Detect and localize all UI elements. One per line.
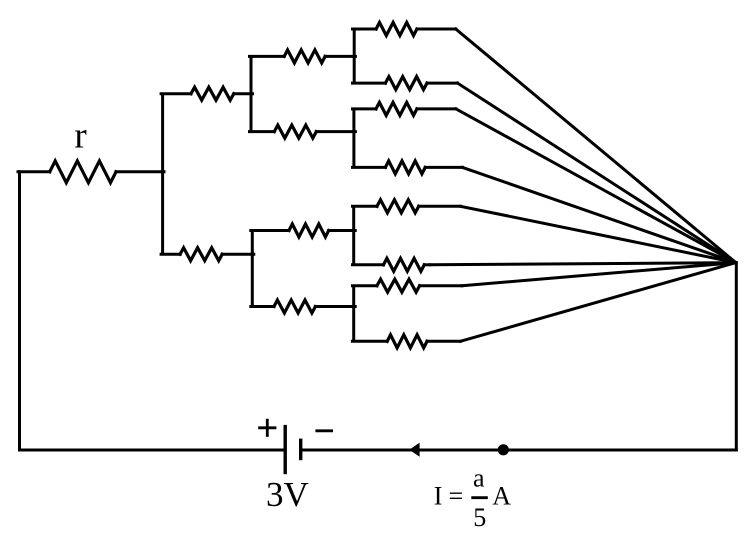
wire resistor R13 to kink [420, 284, 462, 287]
svg-text:a: a [473, 464, 485, 493]
resistor R7 [376, 23, 417, 36]
wire node G to resistor R14 [353, 340, 388, 343]
node E vertical bus [352, 109, 355, 167]
svg-text:3V: 3V [266, 475, 309, 514]
svg-text:I: I [434, 482, 443, 511]
resistor R1 [191, 87, 234, 100]
wire bottom left (battery + side) [20, 449, 286, 452]
wire resistor R2 to node C [222, 253, 254, 256]
wire node B to resistor R4 [250, 130, 275, 133]
resistor R2 [180, 248, 222, 261]
current arrow head (pointing left) [409, 443, 419, 457]
resistor R4 [274, 125, 316, 138]
svg-text:A: A [492, 482, 511, 511]
wire node F to resistor R12 [353, 263, 384, 266]
wire resistor R12 diagonal to node H [430, 263, 736, 265]
wire resistor R10 diagonal to node H [463, 167, 736, 262]
battery minus sign [315, 429, 333, 432]
wire resistor R11 to kink [419, 205, 461, 208]
wire resistor R14 to kink [427, 340, 460, 343]
svg-text:=: = [449, 482, 464, 511]
resistor R9 [376, 102, 417, 115]
resistor R8 [385, 77, 427, 90]
node B vertical bus [250, 56, 253, 131]
node C vertical bus [251, 231, 254, 307]
resistor R14 [387, 335, 427, 348]
wire resistor R9 diagonal to node H [456, 109, 736, 263]
wire resistor R11 diagonal to node H [461, 206, 736, 262]
wire node A to resistor R1 [161, 92, 191, 95]
wire resistor R14 diagonal to node H [460, 263, 735, 342]
wire resistor R4 to node E [316, 130, 355, 133]
wire resistor R13 diagonal to node H [462, 263, 736, 286]
wire resistor R6 to node G [315, 305, 355, 308]
junction dot node J [498, 444, 509, 455]
wire node D to resistor R7 [353, 28, 377, 31]
wire node A to resistor R2 [161, 253, 180, 256]
node F vertical bus [352, 206, 355, 264]
svg-text:r: r [74, 116, 86, 157]
wire node C to resistor R5 [251, 229, 289, 232]
resistor R3 [284, 50, 325, 63]
wire resistor R1 to node B [234, 92, 253, 95]
wire resistor R12 to kink [424, 263, 430, 266]
resistor R5 [289, 224, 329, 237]
wire resistor R10 to kink [425, 166, 462, 169]
resistor R13 [377, 279, 420, 292]
wire resistor R5 to node F [329, 229, 356, 232]
resistor R11 [377, 200, 419, 213]
battery plus sign [258, 419, 276, 437]
resistor R6 [274, 300, 315, 313]
wire node E to resistor R9 [353, 107, 377, 110]
wire resistor R8 diagonal to node H [458, 83, 736, 263]
wire bottom right (battery - side) [301, 449, 737, 452]
resistor R12 [384, 258, 425, 271]
wire left vertical [18, 172, 21, 450]
node A vertical bus [161, 94, 164, 255]
wire resistor R7 diagonal to node H [456, 29, 736, 263]
wire node E to resistor R10 [353, 166, 386, 169]
resistor r [50, 161, 116, 183]
wire resistor R3 to node D [325, 55, 355, 58]
wire right vertical [735, 263, 738, 450]
wire node G to resistor R13 [353, 284, 378, 287]
wire resistor R8 to kink [427, 82, 458, 85]
battery BT1 positive plate (long) [284, 425, 287, 474]
battery BT1 negative plate (short) [299, 439, 302, 461]
resistor R10 [385, 161, 425, 174]
node G vertical bus [352, 286, 355, 342]
label fraction bar [471, 496, 488, 499]
wire from left rail to resistor r [18, 170, 50, 173]
wire node C to resistor R6 [251, 305, 274, 308]
wire resistor R9 to kink [417, 107, 456, 110]
wire node B to resistor R3 [250, 55, 285, 58]
wire from resistor r to node A [116, 170, 164, 173]
svg-text:5: 5 [473, 503, 486, 532]
node D vertical bus [353, 29, 356, 83]
wire resistor R7 to kink [417, 28, 456, 31]
wire node D to resistor R8 [353, 82, 386, 85]
wire node F to resistor R11 [353, 205, 378, 208]
